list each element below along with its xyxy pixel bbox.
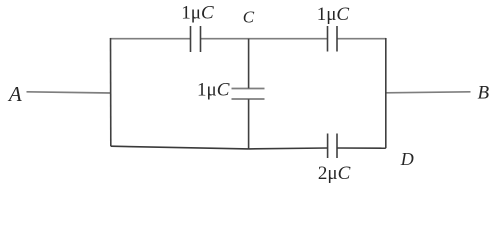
node A terminal wire bbox=[27, 92, 111, 93]
svg-text:A: A bbox=[7, 82, 22, 106]
capacitor C2 1uC plates bbox=[327, 26, 329, 52]
svg-text:1μC: 1μC bbox=[197, 79, 230, 100]
svg-text:2μC: 2μC bbox=[318, 163, 351, 184]
svg-text:1μC: 1μC bbox=[317, 4, 350, 25]
node B terminal wire bbox=[386, 92, 471, 93]
wire right vertical bbox=[385, 38, 387, 148]
svg-text:B: B bbox=[478, 82, 490, 103]
wire node C branch upper bbox=[248, 39, 250, 89]
wire bottom segment left bbox=[111, 146, 249, 149]
capacitor C4 2uC plates bbox=[327, 134, 329, 159]
wire bottom segment right bbox=[337, 147, 386, 149]
wire top segment middle bbox=[201, 38, 328, 40]
wire top segment right bbox=[337, 38, 386, 40]
wire top segment left bbox=[110, 38, 191, 40]
svg-text:D: D bbox=[400, 149, 414, 169]
wire left vertical bbox=[110, 38, 112, 146]
wire bottom segment middle bbox=[249, 147, 328, 150]
capacitor C1 1uC plates bbox=[190, 26, 192, 52]
capacitor C3 1uC horizontal plates bbox=[232, 88, 265, 90]
svg-text:1μC: 1μC bbox=[181, 3, 214, 24]
wire node C branch lower bbox=[248, 99, 250, 149]
svg-text:C: C bbox=[243, 7, 255, 26]
